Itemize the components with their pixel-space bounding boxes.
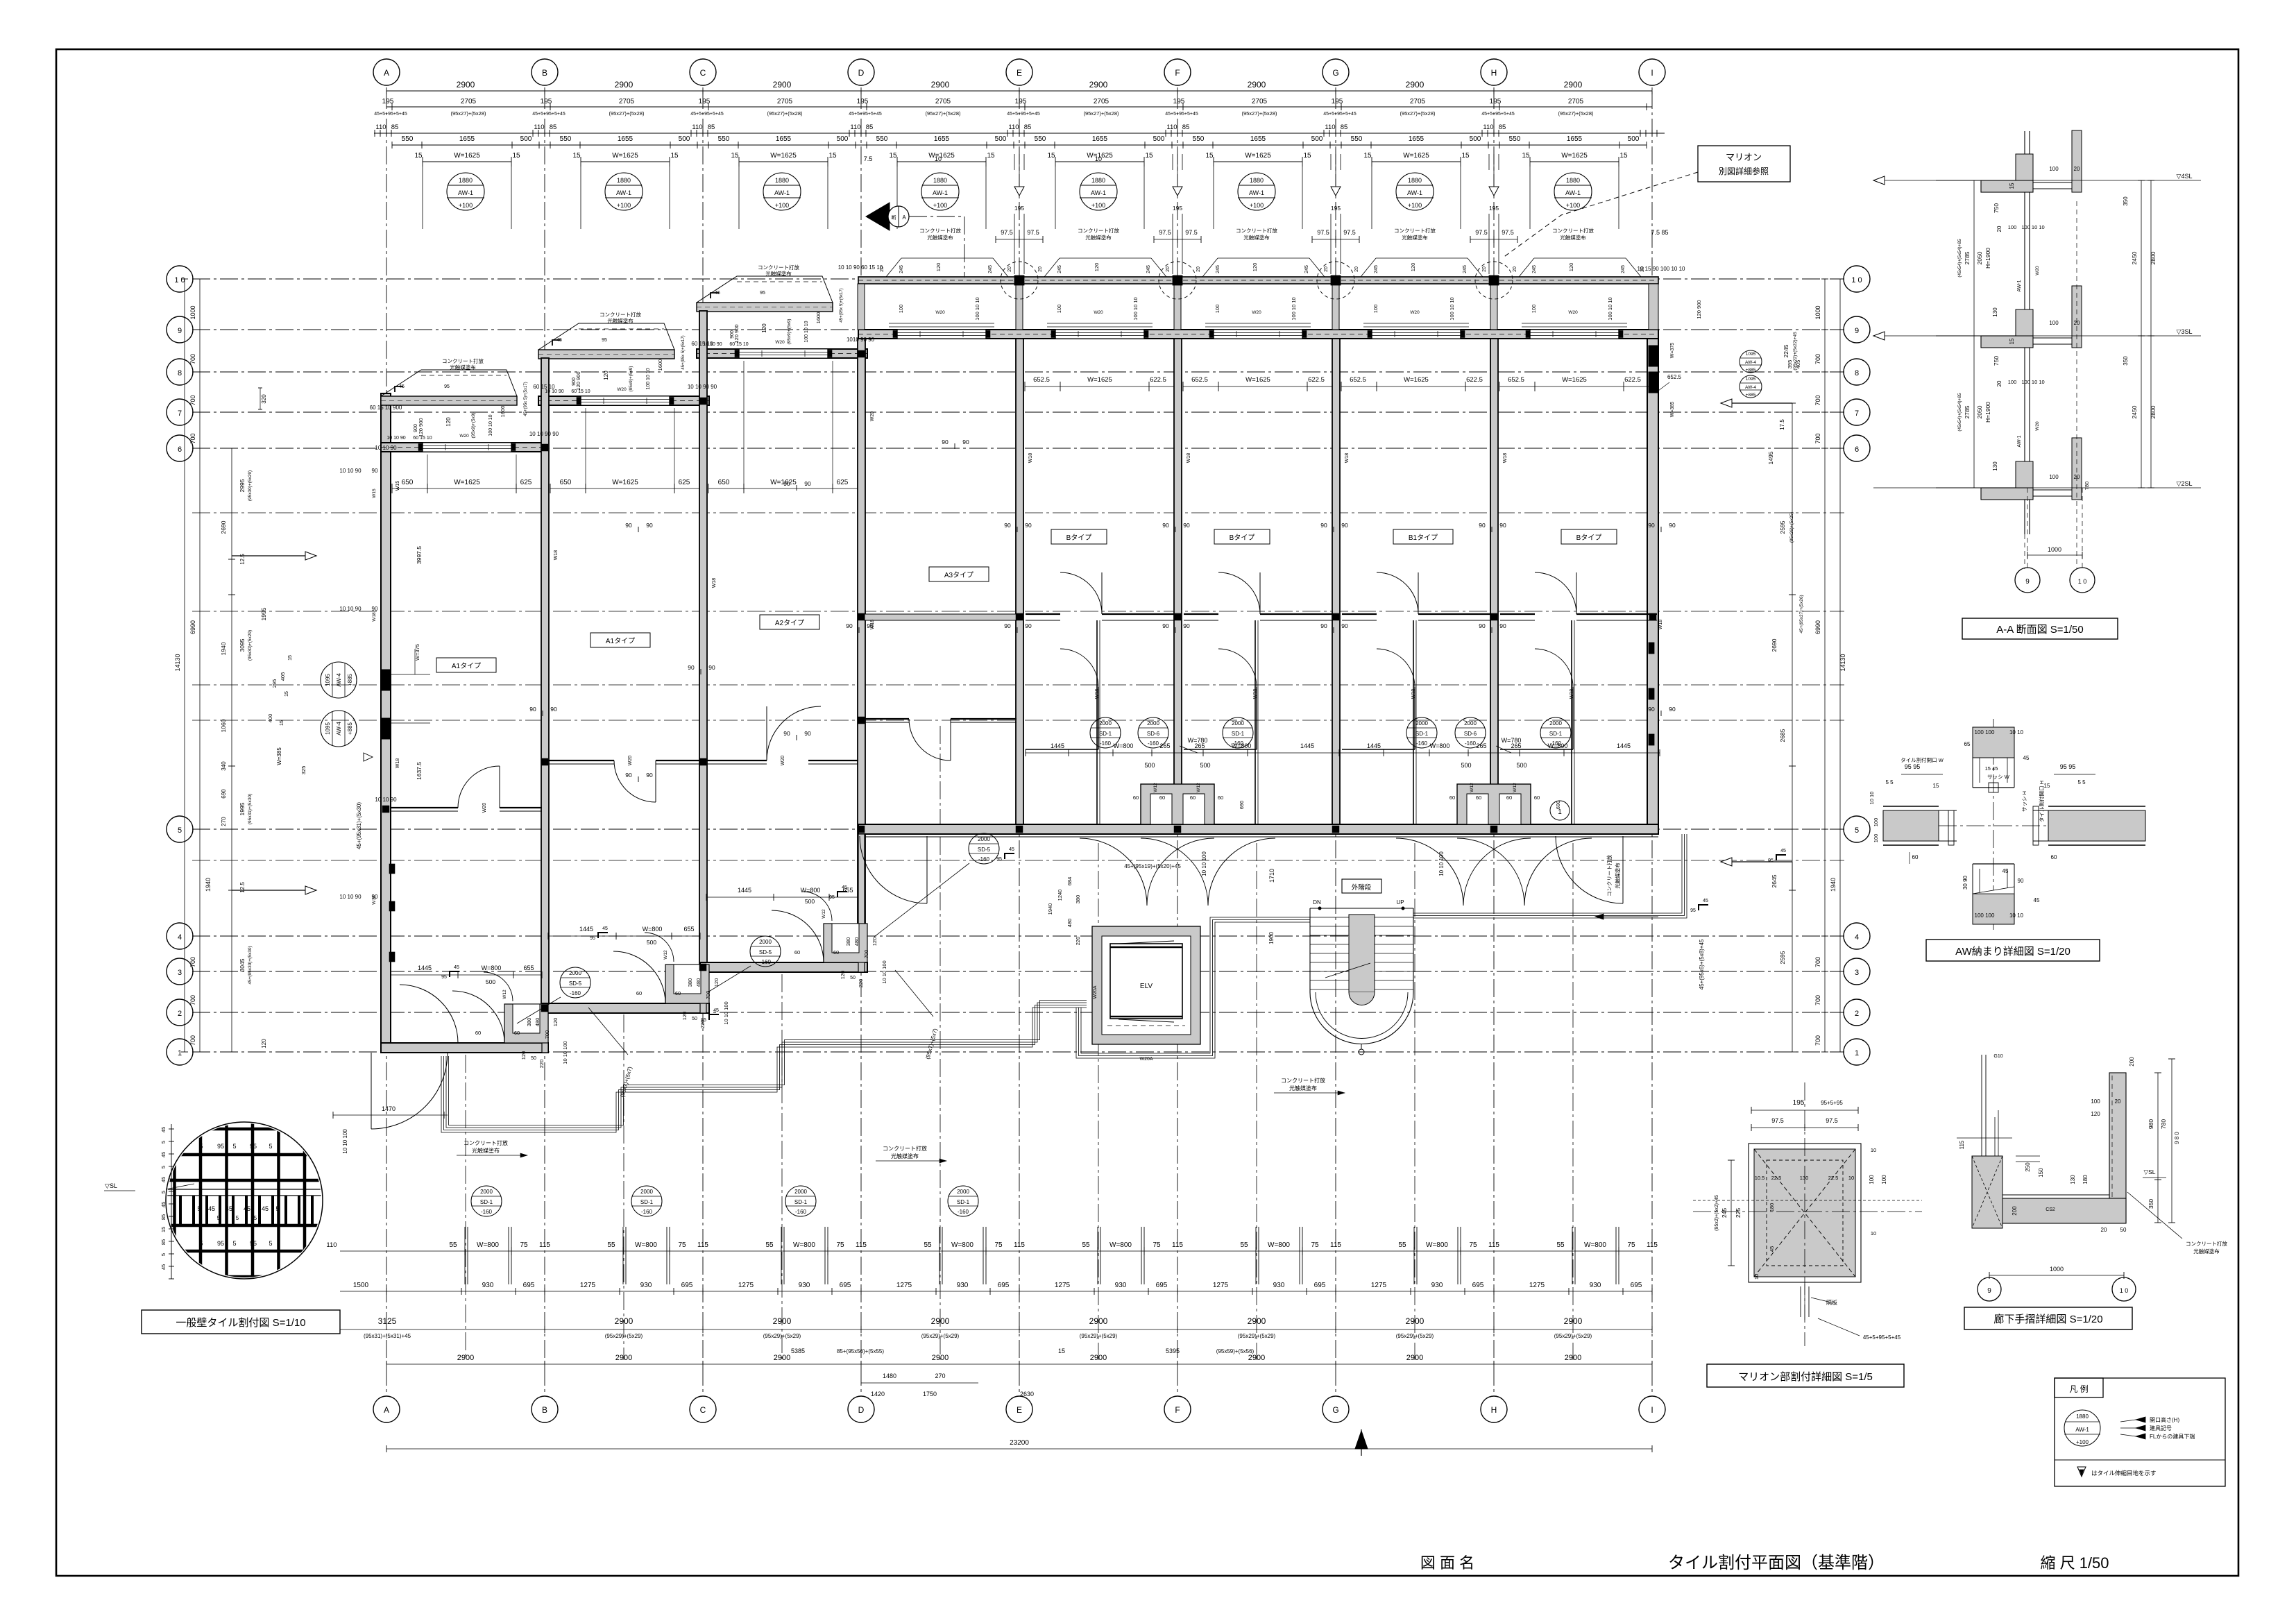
svg-text:1095: 1095	[1746, 352, 1756, 357]
svg-text:90: 90	[1183, 622, 1190, 629]
svg-text:2785: 2785	[1964, 405, 1971, 418]
svg-text:20: 20	[1007, 266, 1012, 272]
svg-text:45: 45	[602, 926, 608, 931]
svg-text:2705: 2705	[1568, 98, 1584, 105]
AW detail cross center lines	[1883, 825, 2145, 826]
svg-text:10: 10	[1753, 1274, 1760, 1280]
svg-text:1637.5: 1637.5	[416, 762, 423, 780]
svg-text:100 10 10: 100 10 10	[488, 414, 493, 436]
svg-text:700: 700	[863, 950, 869, 959]
lower-left door arc outside	[371, 1053, 448, 1129]
svg-text:5: 5	[197, 1205, 201, 1212]
svg-text:15: 15	[1303, 152, 1311, 160]
svg-text:75: 75	[836, 1241, 844, 1249]
svg-text:195: 195	[1489, 205, 1499, 212]
entrance door pair at F	[1080, 838, 1147, 906]
svg-text:120 900: 120 900	[1696, 300, 1702, 318]
svg-text:2: 2	[178, 1010, 182, 1018]
svg-text:▽SL: ▽SL	[105, 1182, 117, 1189]
grid column circles bottom A-I	[373, 1396, 400, 1422]
svg-text:10 10 100: 10 10 100	[562, 1041, 568, 1064]
svg-text:(95x2)+(5x2)+45: (95x2)+(5x2)+45	[1715, 1195, 1719, 1231]
svg-text:6: 6	[1855, 445, 1859, 454]
svg-text:100: 100	[2049, 166, 2059, 172]
svg-text:コンクリート打放: コンクリート打放	[919, 227, 961, 234]
svg-text:断: 断	[892, 214, 896, 221]
svg-text:60 15 10 900: 60 15 10 900	[370, 405, 402, 411]
svg-text:195: 195	[1014, 205, 1024, 212]
svg-text:10 10 90: 10 10 90	[339, 894, 362, 900]
svg-text:2705: 2705	[1410, 98, 1426, 105]
svg-text:F: F	[1175, 1405, 1180, 1415]
bottom total dim 23200	[386, 1448, 1652, 1450]
door arcs right block corridor wall	[1060, 572, 1102, 614]
svg-text:60: 60	[1190, 794, 1196, 801]
svg-text:C: C	[700, 68, 706, 78]
svg-text:55: 55	[1240, 1241, 1248, 1249]
svg-text:H: H	[1491, 1405, 1497, 1415]
svg-text:1710: 1710	[1268, 869, 1275, 883]
svg-text:-160: -160	[978, 856, 990, 863]
svg-text:W20: W20	[775, 340, 785, 345]
svg-text:1 0: 1 0	[2120, 1287, 2129, 1294]
svg-text:1275: 1275	[1371, 1282, 1387, 1289]
svg-text:光触媒塗布: 光触媒塗布	[1614, 863, 1621, 889]
svg-text:A2タイプ: A2タイプ	[775, 619, 804, 627]
svg-text:Bタイプ: Bタイプ	[1066, 534, 1092, 542]
svg-text:500: 500	[1153, 135, 1165, 143]
svg-text:W=1625: W=1625	[1087, 376, 1112, 384]
svg-text:2000: 2000	[1232, 720, 1244, 726]
svg-text:W20: W20	[1252, 310, 1261, 315]
svg-text:2900: 2900	[615, 80, 633, 90]
svg-text:2450: 2450	[2131, 405, 2138, 418]
svg-text:85: 85	[1024, 124, 1032, 131]
svg-text:110: 110	[1166, 124, 1177, 131]
svg-text:22.5: 22.5	[1771, 1175, 1782, 1181]
svg-text:W=1625: W=1625	[612, 479, 638, 486]
svg-text:95: 95	[701, 1018, 706, 1023]
svg-text:1655: 1655	[934, 135, 950, 143]
svg-text:光触媒塗布: 光触媒塗布	[891, 1153, 919, 1159]
svg-text:90: 90	[1499, 622, 1506, 629]
svg-text:1880: 1880	[1091, 177, 1105, 184]
svg-text:光触媒塗布: 光触媒塗布	[450, 364, 476, 371]
svg-text:10 10 90: 10 10 90	[386, 436, 405, 441]
svg-text:10: 10	[1095, 155, 1102, 162]
svg-text:930: 930	[1273, 1282, 1285, 1289]
svg-text:ELV: ELV	[1140, 983, 1153, 990]
svg-text:(95x7)+(5x7): (95x7)+(5x7)	[619, 1066, 633, 1098]
svg-text:45+5+95+5+45: 45+5+95+5+45	[1165, 112, 1198, 117]
svg-text:コンクリート打放: コンクリート打放	[1606, 855, 1613, 897]
svg-text:2900: 2900	[457, 80, 475, 90]
svg-text:650: 650	[560, 479, 572, 486]
svg-text:405: 405	[280, 672, 286, 681]
svg-text:W12: W12	[663, 950, 668, 960]
svg-text:マリオン: マリオン	[1726, 152, 1762, 162]
svg-text:245: 245	[988, 265, 993, 273]
svg-text:90: 90	[783, 480, 790, 487]
svg-text:90: 90	[529, 706, 536, 713]
svg-text:W18: W18	[1095, 689, 1100, 699]
svg-text:85: 85	[866, 124, 874, 131]
svg-text:45: 45	[226, 1205, 232, 1212]
svg-text:W18: W18	[1028, 453, 1033, 464]
svg-text:75: 75	[678, 1241, 686, 1249]
svg-text:2000: 2000	[978, 836, 990, 842]
svg-text:AW-1: AW-1	[2017, 435, 2022, 447]
svg-text:5385: 5385	[791, 1348, 805, 1354]
svg-text:+100: +100	[1408, 202, 1422, 209]
svg-text:一般壁タイル割付図 S=1/10: 一般壁タイル割付図 S=1/10	[176, 1317, 305, 1329]
svg-text:(95x30)+(5x29): (95x30)+(5x29)	[248, 470, 253, 501]
svg-text:AW-4: AW-4	[1745, 385, 1756, 390]
note box: mullion see detail	[1698, 146, 1790, 182]
svg-text:+100: +100	[1250, 202, 1264, 209]
svg-text:2900: 2900	[1090, 1354, 1107, 1362]
svg-text:1940: 1940	[1830, 878, 1837, 892]
svg-text:270: 270	[935, 1373, 945, 1379]
svg-text:700: 700	[1814, 433, 1821, 443]
svg-text:380: 380	[687, 978, 693, 987]
svg-text:▽4SL: ▽4SL	[2177, 173, 2193, 180]
svg-text:コンクリート打放: コンクリート打放	[1236, 227, 1277, 234]
right block front wall on row 9	[858, 330, 1658, 339]
svg-text:-160: -160	[1100, 740, 1112, 747]
svg-text:85: 85	[1341, 124, 1348, 131]
svg-text:100: 100	[898, 305, 904, 314]
svg-text:180: 180	[2082, 1175, 2089, 1184]
svg-text:15: 15	[1461, 152, 1470, 160]
svg-text:1: 1	[1558, 808, 1562, 816]
svg-text:15: 15	[160, 1227, 167, 1232]
svg-text:90: 90	[1479, 522, 1486, 529]
svg-text:90: 90	[372, 606, 378, 612]
svg-text:G: G	[1332, 1405, 1338, 1415]
svg-text:130: 130	[1992, 461, 1998, 471]
svg-text:325: 325	[300, 766, 307, 775]
svg-text:3125: 3125	[378, 1316, 397, 1326]
svg-text:2900: 2900	[1565, 1354, 1581, 1362]
svg-text:622.5: 622.5	[1466, 376, 1483, 384]
svg-text:-160: -160	[641, 1209, 653, 1215]
svg-text:45+(95x 5)+(5x17): 45+(95x 5)+(5x17)	[681, 335, 686, 369]
svg-text:W15: W15	[372, 488, 377, 498]
svg-text:45+5+95+5+45: 45+5+95+5+45	[1007, 112, 1040, 117]
svg-text:10 10: 10 10	[2009, 729, 2024, 736]
A-A section: left dim chain	[1973, 180, 1975, 488]
svg-text:SD-1: SD-1	[1232, 731, 1245, 737]
svg-text:115: 115	[1014, 1241, 1025, 1249]
svg-text:85: 85	[160, 1214, 167, 1220]
svg-text:90: 90	[1025, 522, 1032, 529]
svg-text:1880: 1880	[933, 177, 947, 184]
svg-text:60: 60	[2051, 854, 2057, 860]
svg-text:15: 15	[828, 152, 837, 160]
svg-text:W=1625: W=1625	[1561, 152, 1588, 160]
svg-text:1 0: 1 0	[174, 276, 185, 284]
svg-text:1095: 1095	[325, 674, 331, 686]
svg-text:コンクリート打放: コンクリート打放	[442, 357, 484, 364]
svg-text:700: 700	[1814, 957, 1821, 967]
svg-text:マリオン部割付詳細図 S=1/5: マリオン部割付詳細図 S=1/5	[1738, 1371, 1873, 1383]
svg-text:W=800: W=800	[1584, 1241, 1606, 1249]
svg-text:14130: 14130	[1839, 654, 1846, 671]
svg-text:60: 60	[1449, 794, 1455, 801]
svg-text:550: 550	[718, 135, 730, 143]
svg-text:700: 700	[189, 1035, 196, 1046]
svg-text:1000: 1000	[2048, 546, 2061, 553]
svg-text:350: 350	[2148, 1199, 2154, 1209]
svg-text:85: 85	[550, 124, 557, 131]
svg-text:W=800: W=800	[1114, 742, 1134, 749]
svg-text:廊下手摺詳細図 S=1/20: 廊下手摺詳細図 S=1/20	[1993, 1314, 2102, 1325]
svg-text:サッシ W: サッシ W	[1987, 774, 2010, 780]
svg-text:(95x27)+(5x28): (95x27)+(5x28)	[925, 110, 961, 117]
svg-text:550: 550	[876, 135, 888, 143]
svg-text:W18: W18	[554, 550, 559, 561]
svg-text:45: 45	[160, 1202, 167, 1207]
svg-text:60: 60	[794, 949, 800, 955]
svg-text:W=800: W=800	[1548, 742, 1568, 749]
svg-text:9: 9	[178, 327, 182, 335]
svg-text:120: 120	[1252, 263, 1258, 272]
svg-text:930: 930	[1590, 1282, 1601, 1289]
svg-text:AW-4: AW-4	[1745, 360, 1756, 365]
svg-text:AW-1: AW-1	[1249, 189, 1264, 196]
svg-text:1445: 1445	[1367, 742, 1381, 749]
svg-text:(95x27)+(5x28): (95x27)+(5x28)	[609, 110, 645, 117]
svg-text:1940: 1940	[220, 642, 227, 655]
svg-text:1940: 1940	[205, 878, 212, 892]
svg-text:1500: 1500	[353, 1282, 369, 1289]
svg-text:D: D	[858, 1405, 865, 1415]
unit top wall A-B with window	[381, 443, 548, 452]
svg-text:1655: 1655	[1092, 135, 1108, 143]
svg-text:1600: 1600	[815, 312, 822, 324]
svg-text:550: 550	[1351, 135, 1363, 143]
svg-text:AW-1: AW-1	[616, 189, 631, 196]
svg-text:245: 245	[899, 265, 904, 273]
svg-text:550: 550	[402, 135, 414, 143]
svg-text:45+5+95+5+45: 45+5+95+5+45	[532, 112, 566, 117]
svg-text:(95x29)+(5x29): (95x29)+(5x29)	[605, 1333, 643, 1339]
svg-text:100 10 10: 100 10 10	[804, 321, 809, 342]
svg-text:SD-1: SD-1	[640, 1199, 654, 1205]
svg-text:-160: -160	[795, 1209, 807, 1215]
svg-text:90: 90	[688, 664, 695, 671]
vertical unit wall B	[541, 358, 549, 1013]
svg-text:SD-5: SD-5	[978, 847, 991, 853]
svg-text:W18: W18	[1411, 689, 1416, 699]
svg-text:1470: 1470	[382, 1105, 396, 1112]
svg-text:700: 700	[189, 433, 196, 443]
svg-text:480: 480	[534, 1018, 541, 1027]
svg-text:W20: W20	[459, 434, 469, 439]
svg-text:SD-1: SD-1	[1099, 731, 1112, 737]
svg-text:W18: W18	[712, 578, 717, 588]
svg-text:622.5: 622.5	[1624, 376, 1641, 384]
svg-text:20: 20	[1996, 226, 2002, 232]
svg-text:W12: W12	[822, 909, 826, 919]
svg-text:W20: W20	[482, 803, 487, 813]
svg-text:10 10 90: 10 10 90	[375, 797, 397, 803]
svg-text:100: 100	[1881, 1175, 1887, 1184]
svg-text:5: 5	[199, 1240, 203, 1247]
svg-text:150: 150	[2038, 1168, 2044, 1178]
svg-text:100: 100	[1873, 818, 1879, 827]
svg-text:15: 15	[2009, 182, 2015, 189]
tile detail label box	[142, 1310, 340, 1334]
svg-text:1 0: 1 0	[2078, 578, 2087, 585]
svg-text:2000: 2000	[957, 1189, 969, 1195]
svg-text:97.5: 97.5	[1343, 229, 1356, 236]
svg-text:115: 115	[856, 1241, 867, 1249]
svg-text:400: 400	[267, 714, 273, 723]
svg-text:45+5+95+5+45: 45+5+95+5+45	[690, 112, 724, 117]
vertical unit wall C	[699, 311, 707, 972]
svg-text:5: 5	[160, 1191, 167, 1193]
svg-text:100 10 10: 100 10 10	[2021, 379, 2044, 385]
svg-text:652.5: 652.5	[1508, 376, 1524, 384]
svg-text:700: 700	[1814, 1035, 1821, 1046]
svg-text:-160: -160	[1465, 740, 1477, 747]
svg-text:W20A: W20A	[1093, 985, 1098, 999]
svg-text:+885: +885	[1746, 368, 1756, 373]
svg-text:1655: 1655	[1250, 135, 1266, 143]
svg-text:700: 700	[189, 995, 196, 1005]
svg-text:90: 90	[1499, 522, 1506, 529]
svg-text:245: 245	[1216, 265, 1221, 273]
svg-text:AW-1: AW-1	[2017, 280, 2022, 291]
svg-text:90: 90	[1648, 522, 1655, 529]
svg-text:1655: 1655	[459, 135, 475, 143]
svg-text:295: 295	[271, 679, 278, 688]
svg-text:5: 5	[269, 1240, 272, 1247]
svg-text:15: 15	[1363, 152, 1372, 160]
svg-text:2630: 2630	[1020, 1391, 1034, 1397]
svg-text:AW-4: AW-4	[336, 722, 342, 736]
svg-text:100: 100	[1869, 1175, 1875, 1184]
svg-text:(95x26)+(5x25): (95x26)+(5x25)	[1789, 512, 1794, 543]
svg-text:W=800: W=800	[482, 965, 502, 971]
svg-text:45: 45	[160, 1127, 167, 1132]
svg-text:10 10: 10 10	[1869, 792, 1875, 805]
svg-text:4: 4	[178, 933, 182, 942]
svg-text:750: 750	[1993, 203, 2000, 213]
svg-text:2900: 2900	[1564, 1316, 1583, 1326]
svg-text:500: 500	[1461, 762, 1471, 769]
SD-1 symbol circles inside right block	[1090, 717, 1121, 748]
svg-text:690: 690	[221, 789, 227, 799]
entrance alcove A-B unit	[504, 1004, 548, 1043]
svg-text:1880: 1880	[617, 177, 631, 184]
svg-text:(95x29)+(5x29): (95x29)+(5x29)	[763, 1333, 801, 1339]
svg-text:A: A	[902, 214, 906, 221]
svg-text:W20: W20	[781, 756, 785, 766]
svg-text:60 15 10: 60 15 10	[533, 384, 555, 390]
svg-text:SD-5: SD-5	[569, 980, 582, 987]
svg-text:1420: 1420	[871, 1391, 885, 1397]
svg-text:SD-5: SD-5	[759, 949, 772, 955]
svg-text:1445: 1445	[418, 965, 432, 971]
svg-text:5: 5	[160, 1253, 167, 1256]
svg-text:500: 500	[679, 135, 690, 143]
AW detail right wall	[2048, 810, 2145, 841]
svg-text:FLからの建具下端: FLからの建具下端	[2150, 1433, 2195, 1440]
unit label A2	[760, 615, 819, 629]
svg-text:930: 930	[799, 1282, 810, 1289]
svg-text:C: C	[700, 1405, 706, 1415]
svg-text:120: 120	[935, 263, 942, 272]
svg-text:1275: 1275	[1055, 1282, 1071, 1289]
svg-text:500: 500	[647, 939, 656, 946]
svg-text:はタイル伸縮目地を示す: はタイル伸縮目地を示す	[2091, 1470, 2157, 1477]
svg-text:+100: +100	[933, 202, 947, 209]
svg-text:2690: 2690	[220, 520, 227, 534]
svg-text:15: 15	[2009, 338, 2015, 344]
svg-text:光触媒塗布: 光触媒塗布	[607, 317, 633, 324]
svg-text:W18: W18	[1187, 453, 1191, 464]
svg-text:652.5: 652.5	[1191, 376, 1208, 384]
svg-text:90: 90	[1025, 622, 1032, 629]
entrance alcove at wall F	[1141, 784, 1214, 824]
svg-text:60: 60	[475, 1030, 481, 1036]
svg-text:2595: 2595	[1779, 520, 1786, 534]
section pennant top (A)	[866, 203, 890, 230]
bottom wall unit C-D (row3)	[700, 962, 867, 972]
svg-text:W=1625: W=1625	[454, 479, 480, 486]
svg-text:AW-1: AW-1	[1407, 189, 1422, 196]
svg-text:15: 15	[1047, 152, 1055, 160]
svg-text:10 10 90: 10 10 90	[375, 445, 397, 451]
svg-text:W18: W18	[372, 895, 377, 905]
svg-text:5: 5	[1855, 826, 1859, 835]
svg-text:5: 5	[217, 1215, 221, 1221]
svg-text:1275: 1275	[1213, 1282, 1229, 1289]
svg-text:Bタイプ: Bタイプ	[1576, 534, 1602, 542]
svg-text:625: 625	[679, 479, 690, 486]
svg-text:2900: 2900	[1248, 1316, 1266, 1326]
svg-text:380: 380	[1075, 895, 1081, 904]
svg-text:120: 120	[603, 371, 609, 380]
svg-text:1900: 1900	[1268, 932, 1275, 944]
svg-text:15: 15	[987, 152, 995, 160]
svg-text:Bタイプ: Bタイプ	[1230, 534, 1255, 542]
svg-text:45+(95x31)+(5x30): 45+(95x31)+(5x30)	[356, 802, 362, 849]
svg-text:45: 45	[454, 965, 459, 970]
svg-text:H=1900: H=1900	[1984, 248, 1991, 269]
svg-text:2450: 2450	[2131, 251, 2138, 264]
small black window stubs on right wall	[1649, 346, 1658, 366]
SD-1 circles bottom row	[471, 1186, 502, 1216]
svg-text:120: 120	[445, 417, 452, 427]
svg-text:60: 60	[1218, 794, 1223, 801]
svg-text:120: 120	[1410, 263, 1416, 272]
AW-4 symbol circles left	[321, 662, 357, 698]
svg-text:120: 120	[1568, 263, 1574, 272]
left sub dim chain	[231, 448, 232, 1052]
svg-text:4: 4	[1855, 933, 1859, 942]
svg-text:45: 45	[2023, 755, 2030, 761]
svg-text:W=1625: W=1625	[1245, 376, 1270, 384]
svg-text:(95x27)+(5x28): (95x27)+(5x28)	[1241, 110, 1277, 117]
svg-text:100 10 10: 100 10 10	[1291, 297, 1297, 320]
svg-text:10 10 90 60 15 10: 10 10 90 60 15 10	[838, 264, 883, 271]
svg-text:W15: W15	[396, 481, 400, 491]
svg-text:85: 85	[391, 124, 399, 131]
